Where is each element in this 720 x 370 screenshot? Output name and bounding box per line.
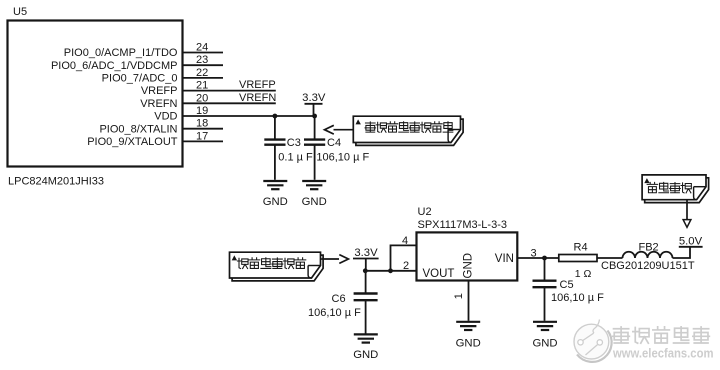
svg-text:5.0V: 5.0V [679, 235, 703, 247]
U5 pin 21 wire (VREFP) [183, 90, 276, 92]
svg-text:PIO0_6/ADC_1/VDDCMP: PIO0_6/ADC_1/VDDCMP [51, 60, 178, 72]
svg-text:SPX1117M3-L-3-3: SPX1117M3-L-3-3 [418, 219, 507, 231]
svg-text:PIO0_7/ADC_0: PIO0_7/ADC_0 [102, 73, 178, 85]
svg-text:19: 19 [196, 105, 208, 117]
svg-text:23: 23 [196, 54, 208, 66]
svg-text:PIO0_8/XTALIN: PIO0_8/XTALIN [99, 123, 177, 135]
regulator U2 body [417, 232, 518, 280]
svg-text:C4: C4 [327, 137, 341, 149]
svg-text:VIN: VIN [495, 253, 514, 265]
U2 pin 1 wire (GND) [468, 281, 470, 321]
U5 pin 24 wire (PIO0_0/ACMP_I1/TDO) [183, 52, 224, 54]
watermark logo (elecfans disc) [574, 320, 612, 362]
svg-text:GND: GND [302, 196, 327, 208]
svg-text:106,10 µ F: 106,10 µ F [551, 292, 604, 304]
ferrite bead FB2 (inductor symbol) [623, 252, 673, 258]
svg-text:C3: C3 [287, 137, 301, 149]
svg-text:4: 4 [402, 235, 408, 247]
junction node VDD/C4/3.3V [312, 114, 317, 119]
svg-text:VREFN: VREFN [140, 98, 177, 110]
callout arrow pointing right [321, 258, 339, 260]
callout note 靠近芯片管脚放置 (place close to chip pins) [353, 116, 463, 145]
svg-text:3.3V: 3.3V [354, 247, 378, 259]
svg-text:PIO0_9/XTALOUT: PIO0_9/XTALOUT [87, 136, 178, 148]
svg-text:1: 1 [453, 293, 465, 299]
svg-text:U5: U5 [13, 6, 27, 18]
U5 pin 18 wire (PIO0_8/XTALIN) [183, 128, 224, 130]
svg-text:3: 3 [530, 247, 536, 259]
U2 pin 4 wire (tied to pin 2) [391, 245, 417, 270]
junction node 3.3V/C6/pin2 [363, 268, 368, 273]
svg-text:2: 2 [403, 260, 409, 272]
callout arrow pointing down [686, 200, 688, 220]
wire R4 to FB2 [597, 257, 623, 259]
svg-text:22: 22 [196, 67, 208, 79]
svg-text:C6: C6 [332, 293, 346, 305]
ground under U2 pin 1 [456, 322, 481, 350]
ground under C6 [353, 334, 378, 361]
svg-text:U2: U2 [418, 206, 432, 218]
U5 pin 22 wire (PIO0_7/ADC_0) [183, 77, 224, 79]
callout arrow pointing left [334, 129, 354, 131]
svg-text:106,10 µ F: 106,10 µ F [316, 152, 369, 164]
svg-text:LPC824M201JHI33: LPC824M201JHI33 [8, 176, 104, 188]
capacitor C3 [264, 116, 285, 180]
svg-text:20: 20 [196, 92, 208, 104]
svg-text:GND: GND [263, 196, 288, 208]
svg-text:VREFP: VREFP [141, 85, 178, 97]
svg-text:0.1 µ F: 0.1 µ F [278, 152, 313, 164]
ground under C3 [263, 181, 288, 208]
callout note 模拟部分供电 (analog section supply) [230, 252, 324, 281]
U5 pin 19 wire (VDD) [183, 115, 315, 117]
svg-text:GND: GND [456, 338, 481, 350]
svg-text:24: 24 [196, 42, 208, 54]
U5 pin 17 wire (PIO0_9/XTALOUT) [183, 140, 224, 142]
capacitor C4 [304, 116, 325, 180]
svg-text:R4: R4 [574, 242, 588, 254]
svg-text:VREFP: VREFP [239, 79, 276, 91]
wire FB2 to 5.0V [673, 247, 691, 258]
resistor R4 [559, 255, 597, 262]
ground under C4 [302, 181, 327, 208]
svg-text:www.elecfans.com: www.elecfans.com [612, 347, 713, 361]
capacitor C6 [354, 271, 378, 334]
svg-text:VOUT: VOUT [423, 268, 455, 280]
svg-text:17: 17 [196, 130, 208, 142]
svg-text:GND: GND [353, 349, 378, 361]
junction node VDD/C3 [273, 114, 278, 119]
U2 pin 2 wire (VOUT net) [365, 270, 416, 272]
svg-text:CBG201209U151T: CBG201209U151T [601, 260, 695, 272]
IC U5 body [8, 21, 183, 167]
watermark text 电子发烧友 [613, 327, 630, 343]
svg-text:18: 18 [196, 118, 208, 130]
svg-text:106,10 µ F: 106,10 µ F [308, 307, 361, 319]
capacitor C5 [533, 258, 557, 321]
junction node VIN/C5 [542, 256, 547, 261]
svg-text:VDD: VDD [154, 111, 177, 123]
U2 pin 3 wire (VIN net) [517, 257, 559, 259]
junction node pin4/pin2 [388, 268, 393, 273]
U5 pin 20 wire (VREFN) [183, 102, 276, 104]
ground under C5 [532, 322, 557, 350]
svg-text:1 Ω: 1 Ω [575, 268, 592, 280]
U5 pin 23 wire (PIO0_6/ADC_1/VDDCMP) [183, 64, 224, 66]
svg-text:C5: C5 [560, 279, 574, 291]
svg-text:PIO0_0/ACMP_I1/TDO: PIO0_0/ACMP_I1/TDO [64, 47, 178, 59]
svg-text:GND: GND [532, 338, 557, 350]
svg-text:GND: GND [463, 253, 475, 279]
svg-text:3.3V: 3.3V [302, 92, 326, 104]
svg-text:21: 21 [196, 80, 208, 92]
svg-text:FB2: FB2 [639, 242, 659, 254]
callout note 数字电源 (digital power) [642, 175, 709, 203]
svg-text:VREFN: VREFN [239, 92, 276, 104]
